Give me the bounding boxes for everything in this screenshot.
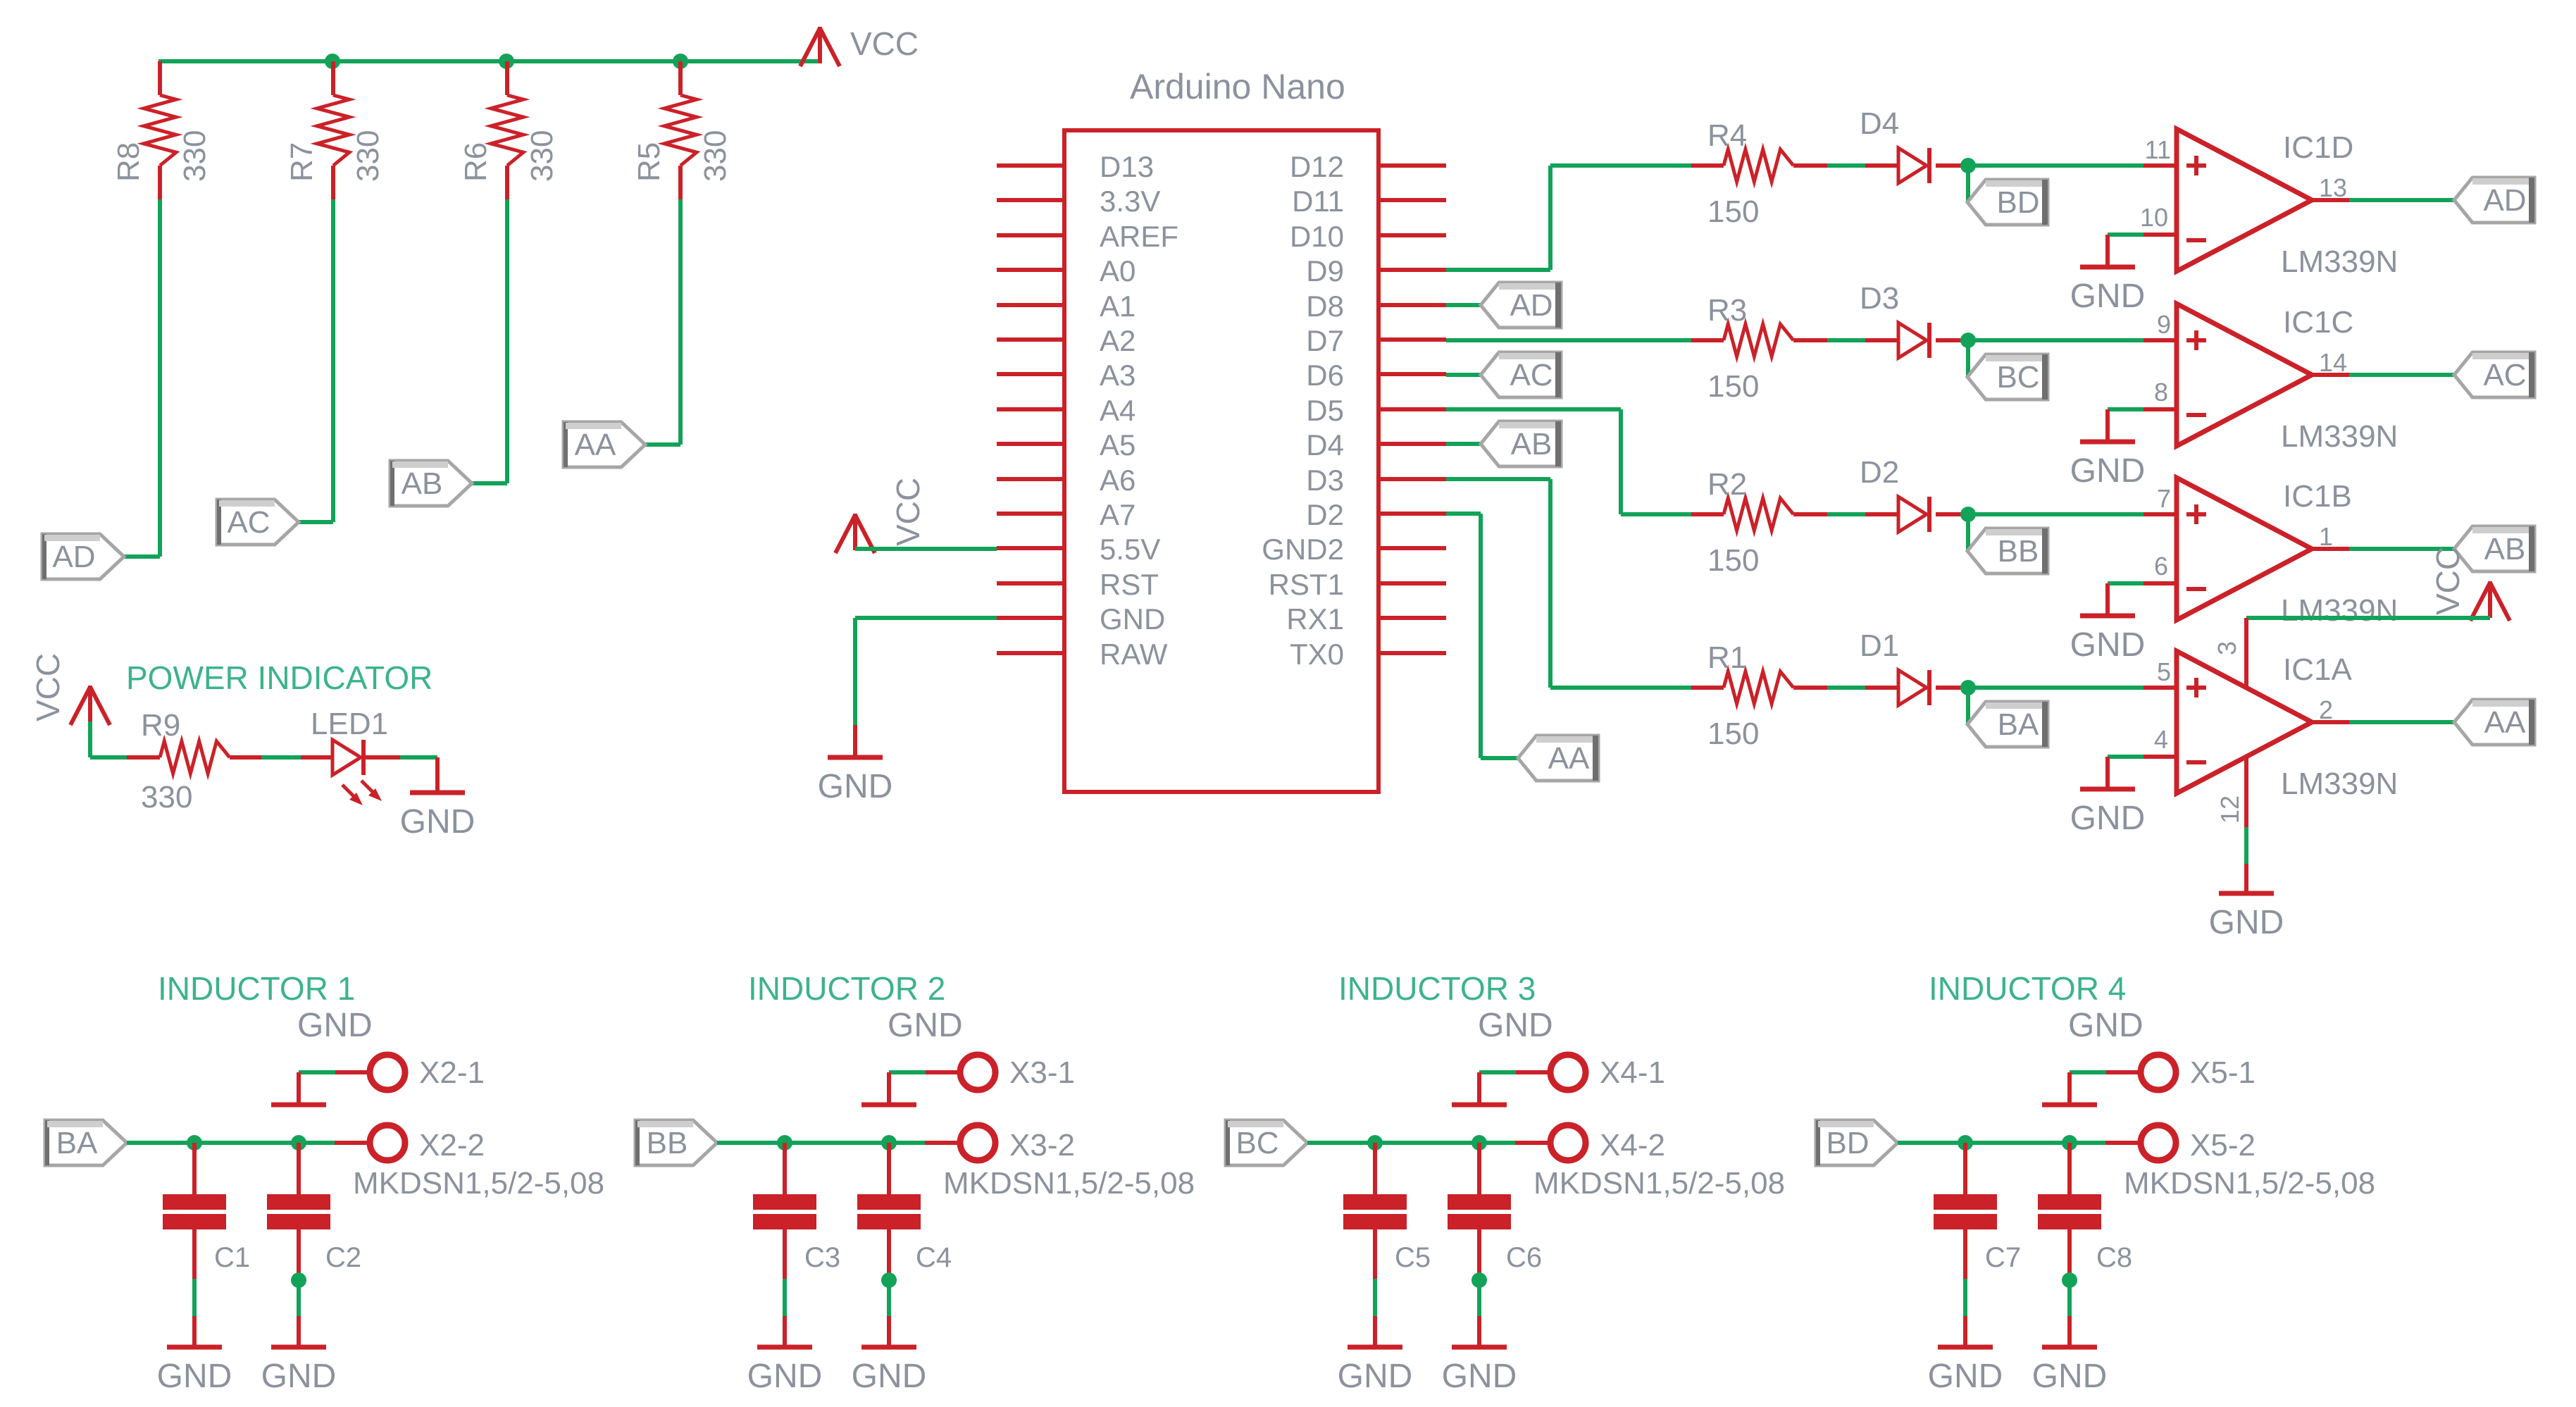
junction dot [881, 1135, 897, 1151]
svg-text:GND: GND [400, 803, 475, 841]
resistor R5 [632, 61, 733, 199]
wire [2312, 547, 2454, 551]
svg-text:GND: GND [2209, 904, 2284, 941]
resistor R2 [1691, 467, 1827, 578]
pin A4 [997, 394, 1135, 427]
svg-text:X5-1: X5-1 [2190, 1055, 2255, 1090]
pin RAW [997, 638, 1168, 671]
svg-text:GND: GND [2070, 278, 2146, 315]
ground [2070, 583, 2146, 664]
net flag BB [1967, 528, 2048, 574]
svg-text:AB: AB [402, 466, 443, 501]
net flag BA [1967, 702, 2048, 747]
junction dot [2062, 1272, 2077, 1288]
wire [1966, 166, 1970, 202]
svg-text:C4: C4 [916, 1242, 952, 1273]
svg-text:GND: GND [297, 1007, 373, 1044]
svg-text:R6: R6 [459, 142, 493, 182]
svg-text:MKDSN1,5/2-5,08: MKDSN1,5/2-5,08 [2124, 1166, 2375, 1201]
svg-text:2: 2 [2319, 695, 2333, 724]
svg-text:D5: D5 [1306, 394, 1344, 427]
ground [157, 1316, 232, 1395]
ground [261, 1316, 337, 1395]
svg-text:7: 7 [2157, 484, 2171, 513]
svg-text:AB: AB [2484, 532, 2526, 566]
connector pad X2-2 [335, 1125, 604, 1201]
svg-text:RAW: RAW [1100, 638, 1168, 671]
power flag VCC [835, 478, 926, 553]
svg-text:AC: AC [227, 505, 270, 540]
wire [1898, 1141, 2105, 1145]
svg-text:150: 150 [1707, 717, 1759, 751]
net flag AD [1481, 283, 1561, 328]
resistor R3 [1691, 293, 1827, 404]
wire [1446, 166, 1691, 270]
resistor R8 [111, 61, 212, 199]
svg-text:R7: R7 [285, 142, 319, 182]
label GND [2068, 1007, 2143, 1044]
svg-text:D1: D1 [1860, 628, 1899, 663]
svg-text:5: 5 [2157, 657, 2171, 686]
svg-text:GND: GND [747, 1358, 823, 1395]
svg-text:GND: GND [157, 1358, 232, 1395]
label POWER INDICATOR [126, 659, 433, 696]
pin D5 [1306, 394, 1446, 427]
net flag AD [2454, 178, 2534, 223]
svg-text:IC1C: IC1C [2283, 305, 2353, 340]
pin RST [997, 568, 1159, 601]
capacitor C7 [1934, 1143, 2021, 1279]
svg-text:6: 6 [2154, 552, 2168, 581]
svg-text:330: 330 [141, 780, 192, 814]
svg-text:POWER INDICATOR: POWER INDICATOR [126, 659, 433, 696]
svg-text:VCC: VCC [30, 653, 66, 721]
junction dot [1367, 1135, 1383, 1151]
svg-text:LED1: LED1 [311, 707, 388, 741]
wire [855, 618, 997, 725]
wire [2246, 616, 2490, 620]
svg-text:GND: GND [2070, 452, 2146, 490]
svg-text:RST: RST [1100, 568, 1159, 601]
diode D2 [1860, 455, 1968, 532]
svg-text:BD: BD [1826, 1126, 1869, 1160]
svg-text:AREF: AREF [1100, 220, 1178, 253]
svg-text:GND: GND [1478, 1007, 1553, 1044]
svg-text:INDUCTOR 2: INDUCTOR 2 [748, 970, 945, 1007]
junction dot [1960, 333, 1976, 348]
svg-text:D6: D6 [1306, 359, 1344, 392]
svg-text:GND: GND [888, 1007, 963, 1044]
ground [2070, 757, 2146, 837]
svg-text:R5: R5 [632, 142, 666, 182]
pin TX0 [1290, 638, 1446, 671]
ground [852, 1316, 927, 1395]
wire [1446, 373, 1481, 377]
svg-text:GND: GND [1442, 1358, 1517, 1395]
wire [2108, 407, 2143, 411]
svg-text:D12: D12 [1290, 150, 1344, 183]
junction dot [1960, 680, 1976, 695]
svg-text:1: 1 [2319, 522, 2333, 551]
svg-text:X2-2: X2-2 [419, 1128, 485, 1163]
wire [1966, 340, 1970, 377]
svg-text:C1: C1 [214, 1242, 250, 1273]
ground [1338, 1316, 1413, 1395]
svg-text:TX0: TX0 [1290, 638, 1344, 671]
resistor R6 [459, 61, 559, 199]
wire [1827, 512, 1865, 516]
svg-text:BC: BC [1236, 1126, 1278, 1160]
svg-text:A5: A5 [1100, 428, 1135, 461]
pin A5 [997, 428, 1135, 461]
wire VCC rail [158, 59, 821, 63]
svg-text:GND: GND [852, 1358, 927, 1395]
svg-text:BA: BA [1998, 707, 2039, 742]
wire [2244, 827, 2248, 864]
svg-text:10: 10 [2140, 203, 2168, 232]
svg-text:RX1: RX1 [1286, 602, 1344, 636]
svg-text:D9: D9 [1306, 254, 1344, 287]
wire [400, 755, 437, 760]
wire [855, 547, 997, 551]
pin 12 [2215, 758, 2246, 827]
pin D4 [1306, 428, 1446, 461]
pin RST1 [1269, 568, 1446, 601]
junction dot [2062, 1135, 2077, 1151]
svg-text:AD: AD [1510, 288, 1553, 323]
net flag BC [1226, 1120, 1307, 1165]
svg-text:INDUCTOR 1: INDUCTOR 1 [158, 970, 355, 1007]
svg-text:D7: D7 [1306, 324, 1344, 357]
junction dot [673, 54, 688, 69]
wire [1446, 409, 1691, 514]
connector pad X5-2 [2105, 1125, 2375, 1201]
diode D4 [1860, 106, 1968, 183]
svg-text:R3: R3 [1707, 293, 1747, 328]
junction dot [1471, 1135, 1487, 1151]
net flag AC [1481, 352, 1561, 397]
svg-text:R2: R2 [1707, 467, 1747, 502]
svg-text:D3: D3 [1306, 464, 1344, 497]
power flag VCC [800, 25, 919, 66]
svg-text:X3-1: X3-1 [1009, 1055, 1075, 1090]
ground [1442, 1316, 1517, 1395]
svg-text:IC1A: IC1A [2283, 652, 2352, 687]
wire [1446, 303, 1481, 307]
svg-text:MKDSN1,5/2-5,08: MKDSN1,5/2-5,08 [1533, 1166, 1785, 1201]
wire [2312, 198, 2454, 202]
resistor R4 [1691, 118, 1827, 229]
wire [192, 1279, 197, 1316]
label INDUCTOR 1 [158, 970, 355, 1007]
svg-text:C8: C8 [2096, 1242, 2132, 1273]
wire [2108, 233, 2143, 237]
svg-text:AA: AA [575, 428, 616, 462]
ground [1452, 1072, 1507, 1105]
label INDUCTOR 4 [1929, 970, 2126, 1007]
wire [127, 1141, 335, 1145]
net flag BC [1967, 354, 2048, 399]
svg-text:R9: R9 [141, 708, 180, 743]
wire [2108, 581, 2143, 585]
wire [1827, 338, 1865, 342]
svg-text:GND: GND [2070, 626, 2146, 664]
svg-text:GND2: GND2 [1262, 533, 1344, 566]
wire [1968, 512, 2143, 516]
svg-text:D11: D11 [1292, 185, 1344, 218]
junction dot [499, 54, 514, 69]
ground [2209, 864, 2284, 941]
wire [2108, 755, 2143, 759]
pin GND [997, 602, 1165, 636]
svg-text:9: 9 [2157, 310, 2171, 339]
connector pad X2-1 [335, 1055, 485, 1090]
ground [1928, 1316, 2003, 1395]
net flag AB [2454, 526, 2534, 571]
resistor R1 [1691, 640, 1827, 751]
svg-text:330: 330 [178, 130, 212, 182]
capacitor C5 [1343, 1143, 1431, 1279]
svg-text:C7: C7 [1985, 1242, 2021, 1273]
svg-text:BB: BB [1998, 534, 2039, 569]
IC Arduino Nano box [1064, 67, 1379, 792]
wire [90, 721, 127, 757]
svg-text:3: 3 [2213, 641, 2241, 655]
pin D6 [1306, 359, 1446, 392]
svg-text:11: 11 [2145, 135, 2171, 164]
svg-text:A3: A3 [1100, 359, 1135, 392]
pin A7 [997, 498, 1135, 531]
ground [818, 725, 893, 805]
svg-text:LM339N: LM339N [2281, 593, 2398, 628]
wire [1968, 686, 2143, 690]
svg-text:150: 150 [1707, 369, 1759, 404]
wire [1966, 514, 1970, 551]
svg-text:R1: R1 [1707, 640, 1747, 675]
svg-text:5.5V: 5.5V [1100, 533, 1160, 566]
net flag BD [1967, 180, 2048, 225]
svg-text:R8: R8 [111, 142, 146, 182]
svg-text:X5-2: X5-2 [2190, 1128, 2255, 1163]
pin A0 [997, 254, 1135, 287]
wire [1827, 163, 1865, 168]
svg-text:AA: AA [1548, 741, 1590, 776]
svg-text:R4: R4 [1707, 118, 1747, 153]
svg-text:330: 330 [525, 130, 559, 182]
capacitor C2 [267, 1143, 361, 1279]
ground [2070, 235, 2146, 315]
junction dot [777, 1135, 792, 1151]
wire [1963, 1279, 1967, 1316]
LED LED1 [301, 707, 400, 805]
svg-text:VCC: VCC [850, 25, 919, 62]
svg-text:C3: C3 [804, 1242, 840, 1273]
ground [271, 1072, 326, 1105]
svg-text:X4-2: X4-2 [1600, 1128, 1665, 1163]
net flag AD [42, 534, 124, 579]
capacitor C6 [1448, 1143, 1542, 1279]
svg-text:MKDSN1,5/2-5,08: MKDSN1,5/2-5,08 [353, 1166, 604, 1201]
op-amp IC1B [2143, 478, 2398, 628]
power flag VCC [2429, 547, 2510, 621]
wire [124, 199, 160, 557]
connector pad X4-1 [1516, 1055, 1665, 1090]
svg-text:4: 4 [2154, 725, 2168, 754]
svg-text:GND: GND [1338, 1358, 1413, 1395]
ground [2070, 409, 2146, 490]
pin 5.5V [997, 533, 1160, 566]
capacitor C3 [753, 1143, 840, 1279]
diode D1 [1860, 628, 1968, 705]
pin 3 [2213, 618, 2246, 687]
connector pad X4-2 [1515, 1125, 1785, 1201]
svg-text:RST1: RST1 [1269, 568, 1344, 601]
capacitor C1 [163, 1143, 250, 1279]
wire [299, 1070, 335, 1074]
svg-text:LM339N: LM339N [2281, 419, 2398, 454]
pin D13 [997, 150, 1154, 183]
junction dot [187, 1135, 202, 1151]
wire [2312, 373, 2454, 377]
net flag BB [635, 1120, 717, 1165]
wire [1446, 479, 1691, 688]
svg-text:INDUCTOR 3: INDUCTOR 3 [1338, 970, 1536, 1007]
wire [1307, 1141, 1515, 1145]
pin RX1 [1286, 602, 1446, 636]
svg-text:C5: C5 [1395, 1242, 1431, 1273]
svg-text:330: 330 [351, 130, 385, 182]
pin GND2 [1262, 533, 1446, 566]
net flag AA [2454, 700, 2534, 745]
label GND [297, 1007, 373, 1044]
svg-text:GND: GND [1100, 602, 1165, 636]
label INDUCTOR 3 [1338, 970, 1536, 1007]
svg-text:MKDSN1,5/2-5,08: MKDSN1,5/2-5,08 [943, 1166, 1195, 1201]
svg-text:8: 8 [2154, 378, 2168, 407]
net flag AC [2454, 352, 2534, 397]
pin A6 [997, 464, 1135, 497]
svg-text:BA: BA [56, 1126, 98, 1160]
wire [645, 199, 680, 445]
power flag VCC [30, 653, 110, 725]
svg-text:BB: BB [647, 1126, 688, 1160]
wire [1966, 688, 1970, 724]
svg-text:GND: GND [1928, 1358, 2003, 1395]
pin 3.3V [997, 185, 1160, 218]
svg-text:BD: BD [1996, 185, 2039, 220]
svg-text:12: 12 [2215, 795, 2244, 824]
wire [2312, 720, 2454, 724]
connector pad X3-2 [925, 1125, 1195, 1201]
pin A1 [997, 290, 1135, 323]
net flag AA [1518, 736, 1598, 781]
svg-text:AC: AC [1510, 358, 1553, 392]
junction dot [881, 1272, 897, 1288]
pin A3 [997, 359, 1135, 392]
svg-text:13: 13 [2319, 173, 2347, 202]
resistor R9 [127, 708, 261, 814]
net flag AB [390, 461, 472, 506]
svg-text:AD: AD [52, 540, 95, 574]
wire [889, 1070, 926, 1074]
wire [887, 1280, 891, 1316]
wire [261, 755, 301, 760]
pin D3 [1306, 464, 1446, 497]
wire [472, 199, 507, 483]
svg-text:D13: D13 [1100, 150, 1154, 183]
wire [2067, 1280, 2072, 1316]
svg-text:14: 14 [2319, 348, 2347, 377]
svg-text:D2: D2 [1860, 455, 1899, 490]
wire [1968, 163, 2143, 168]
svg-text:IC1B: IC1B [2283, 479, 2352, 514]
svg-text:D3: D3 [1860, 281, 1899, 316]
connector pad X5-1 [2106, 1055, 2255, 1090]
ground [2032, 1316, 2108, 1395]
wire [297, 1280, 301, 1316]
svg-text:150: 150 [1707, 543, 1759, 578]
svg-text:VCC: VCC [2429, 547, 2466, 615]
pin D9 [1306, 254, 1446, 287]
label GND [888, 1007, 963, 1044]
pin A2 [997, 324, 1135, 357]
net flag AC [217, 500, 299, 545]
svg-text:D10: D10 [1290, 220, 1344, 253]
junction dot [1471, 1272, 1487, 1288]
op-amp IC1D [2140, 129, 2398, 279]
junction dot [1960, 507, 1976, 522]
svg-text:Arduino Nano: Arduino Nano [1130, 67, 1345, 106]
svg-text:330: 330 [698, 130, 733, 182]
ground [861, 1072, 916, 1105]
wire [717, 1141, 925, 1145]
ground [747, 1316, 823, 1395]
pin D2 [1306, 498, 1446, 531]
junction dot [291, 1272, 306, 1288]
pin D10 [1290, 220, 1446, 253]
svg-text:A0: A0 [1100, 254, 1135, 287]
junction dot [291, 1135, 306, 1151]
capacitor C8 [2038, 1143, 2132, 1279]
svg-text:LM339N: LM339N [2281, 767, 2398, 801]
svg-text:GND: GND [261, 1358, 337, 1395]
wire [783, 1279, 787, 1316]
svg-text:IC1D: IC1D [2283, 130, 2353, 165]
wire [1477, 1280, 1481, 1316]
net flag AB [1481, 421, 1561, 466]
svg-text:A2: A2 [1100, 324, 1135, 357]
wire [2070, 1070, 2106, 1074]
op-amp IC1A [2143, 651, 2398, 801]
svg-text:150: 150 [1707, 194, 1759, 229]
wire [1968, 338, 2143, 342]
label INDUCTOR 2 [748, 970, 945, 1007]
svg-text:LM339N: LM339N [2281, 244, 2398, 279]
pin D11 [1292, 185, 1446, 218]
wire [299, 199, 333, 522]
svg-text:D2: D2 [1306, 498, 1344, 531]
svg-text:GND: GND [818, 768, 893, 805]
ground [2042, 1072, 2097, 1105]
wire [1446, 514, 1518, 758]
svg-text:C6: C6 [1506, 1242, 1542, 1273]
svg-text:AB: AB [1511, 427, 1553, 461]
net flag BD [1816, 1120, 1898, 1165]
capacitor C4 [857, 1143, 952, 1279]
connector pad X3-1 [926, 1055, 1075, 1090]
diode D3 [1860, 281, 1968, 358]
svg-text:AC: AC [2483, 358, 2526, 392]
